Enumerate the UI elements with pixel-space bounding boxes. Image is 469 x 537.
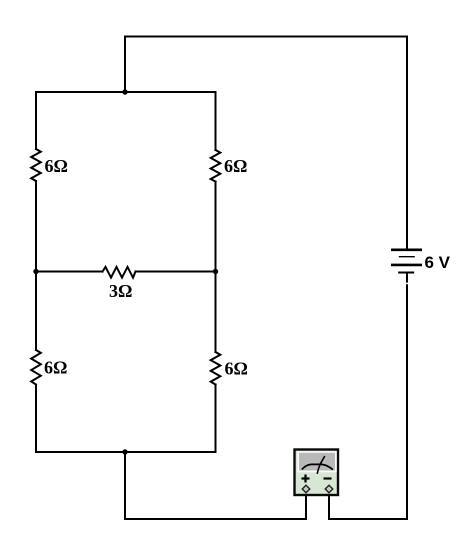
- wire right branch lower-middle segment: [215, 271, 217, 352]
- node D junction dot (bottom rail): [122, 449, 127, 454]
- wire middle rail right segment: [136, 271, 216, 273]
- wire middle rail left segment: [36, 271, 103, 273]
- wire right branch middle segment: [215, 182, 217, 272]
- wire left branch upper segment: [35, 92, 37, 149]
- meter M1 minus marking: [324, 477, 332, 479]
- svg-text:6Ω: 6Ω: [44, 358, 67, 378]
- wire drop from bottom rail node D: [124, 452, 126, 519]
- meter M1 needle: [317, 456, 325, 474]
- svg-text:6Ω: 6Ω: [224, 156, 247, 176]
- wire top rail: [125, 36, 407, 38]
- wire left branch middle segment: [35, 181, 37, 271]
- node B junction dot (left middle): [33, 269, 38, 274]
- node A junction dot: [122, 89, 127, 94]
- svg-text:6Ω: 6Ω: [45, 156, 68, 176]
- svg-text:3Ω: 3Ω: [109, 281, 132, 301]
- wire battery bottom stub: [406, 274, 408, 282]
- wire top feed from node A down to bridge top rail: [124, 37, 126, 93]
- wire right vertical lower (battery to bottom): [406, 285, 408, 519]
- meter M1 plus marking: [302, 475, 310, 483]
- meter M1 right terminal: [325, 485, 333, 493]
- resistor R2 6ohm (top-right): [211, 150, 221, 182]
- wire right branch upper segment: [215, 92, 217, 150]
- svg-text:6 V: 6 V: [425, 253, 451, 272]
- meter M1 display bezel: [297, 451, 336, 472]
- node C junction dot (right middle): [213, 269, 218, 274]
- wire bottom rail of bridge: [36, 451, 216, 453]
- battery V1 plates: [391, 250, 422, 273]
- meter M1 display screen: [299, 453, 335, 471]
- wire right vertical upper (top rail to battery): [406, 37, 408, 250]
- meter M1 body: [295, 450, 339, 496]
- wire meter left stub: [305, 496, 307, 519]
- meter M1 scale arc: [302, 464, 333, 469]
- wire left branch bottom segment: [35, 385, 37, 453]
- resistor R1 6ohm (top-left): [31, 149, 41, 181]
- wire bottom-right run to battery: [329, 518, 407, 520]
- resistor R4 6ohm (bottom-right): [211, 352, 221, 385]
- wire left branch lower-middle segment: [35, 271, 37, 350]
- wire right branch bottom segment: [215, 385, 217, 453]
- resistor R5 3ohm (middle): [103, 267, 136, 278]
- wire bridge upper rail: [36, 91, 216, 93]
- resistor R3 6ohm (bottom-left): [31, 350, 41, 385]
- svg-text:6Ω: 6Ω: [225, 359, 248, 379]
- wire bottom-left run to meter: [125, 518, 306, 520]
- wire meter right stub: [328, 496, 330, 519]
- meter M1 left terminal: [302, 485, 310, 493]
